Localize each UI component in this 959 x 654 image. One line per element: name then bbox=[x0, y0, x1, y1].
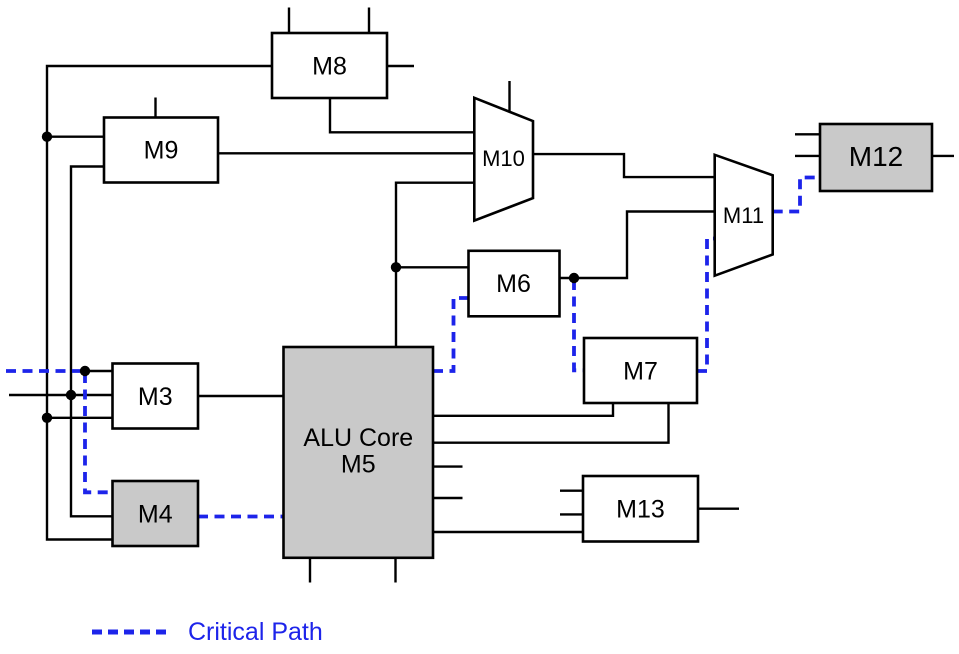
critical path: node B down to M7 left input bbox=[574, 280, 584, 370]
wire ALU right stub 2 bbox=[433, 497, 463, 499]
svg-text:M11: M11 bbox=[723, 203, 764, 228]
wire ALU output to M13 left input bbox=[433, 531, 583, 533]
wire M8 top stub 1 bbox=[288, 8, 290, 34]
junction dot node B on M6 output bbox=[569, 273, 579, 283]
svg-text:ALU Core: ALU Core bbox=[303, 424, 413, 452]
junction dot on rail2 at M3 middle wire crossing bbox=[66, 390, 76, 400]
svg-text:M5: M5 bbox=[341, 451, 376, 479]
svg-text:M9: M9 bbox=[144, 137, 179, 165]
wire M8 bottom to M10 input 1 bbox=[330, 98, 474, 132]
wire left input to M3 input 2 bbox=[9, 394, 113, 396]
wire ALU right stub 1 bbox=[433, 465, 463, 467]
svg-text:M10: M10 bbox=[482, 146, 525, 171]
box M8 bbox=[272, 33, 387, 98]
wire rail1 branch to M9 input 1 bbox=[47, 135, 104, 137]
wire rail1: M8 left input, left vertical bus down to M4 input 3 bbox=[47, 66, 272, 540]
svg-text:M8: M8 bbox=[312, 52, 347, 80]
box ALU Core M5 bbox=[284, 347, 434, 558]
wire M13 left stub 1 bbox=[560, 490, 583, 492]
critical path: M4 output to ALU left bbox=[198, 515, 284, 519]
wire M12 left stub 1 bbox=[795, 133, 820, 135]
junction dot on vertical bus at M6 branch bbox=[391, 262, 401, 272]
critical path: M7 output up to M11 lower input bbox=[697, 239, 715, 372]
critical path: node A down to M4 input 1 bbox=[85, 373, 113, 492]
wire M13 output stub bbox=[698, 508, 739, 510]
wire M6 output to M11 input 2 bbox=[560, 212, 715, 279]
critical path: M11 output to M12 left input bbox=[773, 178, 820, 212]
wire rail1 branch to M3 input 3 bbox=[47, 417, 113, 419]
junction dot node A bbox=[80, 366, 90, 376]
wire ALU bottom stub 2 bbox=[394, 558, 396, 583]
wire M9 output to M10 input 2 bbox=[218, 152, 474, 154]
svg-text:M12: M12 bbox=[849, 141, 903, 172]
wire ALU output 2 to M7 bottom pin 2 bbox=[433, 404, 669, 443]
svg-text:M3: M3 bbox=[138, 383, 173, 411]
box M12 bbox=[820, 124, 932, 191]
box M7 bbox=[584, 338, 697, 403]
svg-text:Critical Path: Critical Path bbox=[188, 618, 323, 646]
wire ALU bottom stub 1 bbox=[309, 558, 311, 583]
box M13 bbox=[583, 476, 698, 542]
mux M11 bbox=[715, 155, 773, 276]
wire ALU output 1 to M7 bottom pin 1 bbox=[433, 404, 613, 416]
box M6 bbox=[469, 251, 560, 316]
box M3 bbox=[113, 364, 199, 429]
wire M12 left stub 2 bbox=[795, 155, 820, 157]
wire vertical bus from M10 input 3 down to ALU top bbox=[396, 183, 474, 347]
wire M13 left stub 2 bbox=[560, 513, 583, 515]
wire M8 right stub bbox=[387, 65, 414, 67]
wire bus branch to M6 input bbox=[396, 266, 469, 268]
wire M8 top stub 2 bbox=[368, 8, 370, 34]
box M9 bbox=[104, 118, 218, 183]
wire M12 right stub bbox=[932, 155, 954, 157]
svg-text:M13: M13 bbox=[616, 495, 665, 523]
wire node A to M3 input 1 bbox=[85, 370, 113, 372]
wire rail2: M9 input 2 down to M4 input 2 bbox=[71, 167, 113, 517]
wire M10 select stub bbox=[508, 81, 510, 112]
junction dot on rail1 at M3 branch bbox=[42, 413, 52, 423]
wire M3 output to ALU left input bbox=[198, 395, 284, 397]
svg-text:M4: M4 bbox=[138, 500, 173, 528]
critical path: ALU right to M6 lower-left input bbox=[433, 298, 469, 371]
wire M10 output to M11 input 1 bbox=[533, 154, 715, 177]
svg-text:M6: M6 bbox=[496, 270, 531, 298]
mux M10 bbox=[474, 98, 533, 221]
svg-text:M7: M7 bbox=[623, 357, 658, 385]
legend critical path dash sample bbox=[92, 630, 171, 635]
box M4 bbox=[113, 481, 199, 546]
critical path: left input to node A bbox=[6, 369, 84, 373]
wire M9 select stub bbox=[154, 98, 156, 118]
junction dot on rail1 at M9 branch bbox=[42, 132, 52, 142]
